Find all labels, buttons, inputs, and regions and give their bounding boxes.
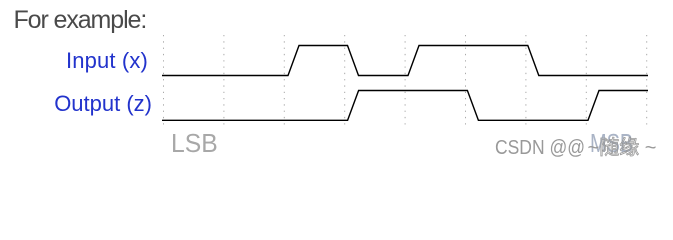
watermark CSDN @@~随缘 ~ [495, 138, 656, 158]
gridline g3 [344, 35, 346, 125]
gridline g6 [525, 35, 527, 125]
signal label Output (z) [54, 93, 152, 115]
waveform output z (0 0 0 1 1 0 0 1) [162, 91, 648, 121]
gridline g7 [585, 35, 587, 125]
signal label Input (x) [66, 50, 148, 72]
gridline g1 [223, 35, 225, 125]
axis label MSB [590, 130, 633, 156]
waveform input x (0 0 1 0 1 1 0 0) [162, 46, 648, 76]
gridline g5 [465, 35, 467, 125]
title text "For example:" [14, 8, 147, 33]
gridline g8 [646, 35, 648, 125]
gridline g2 [283, 35, 285, 125]
gridline g4 [404, 35, 406, 125]
gridline g0 [163, 35, 165, 125]
axis label LSB [171, 130, 218, 156]
